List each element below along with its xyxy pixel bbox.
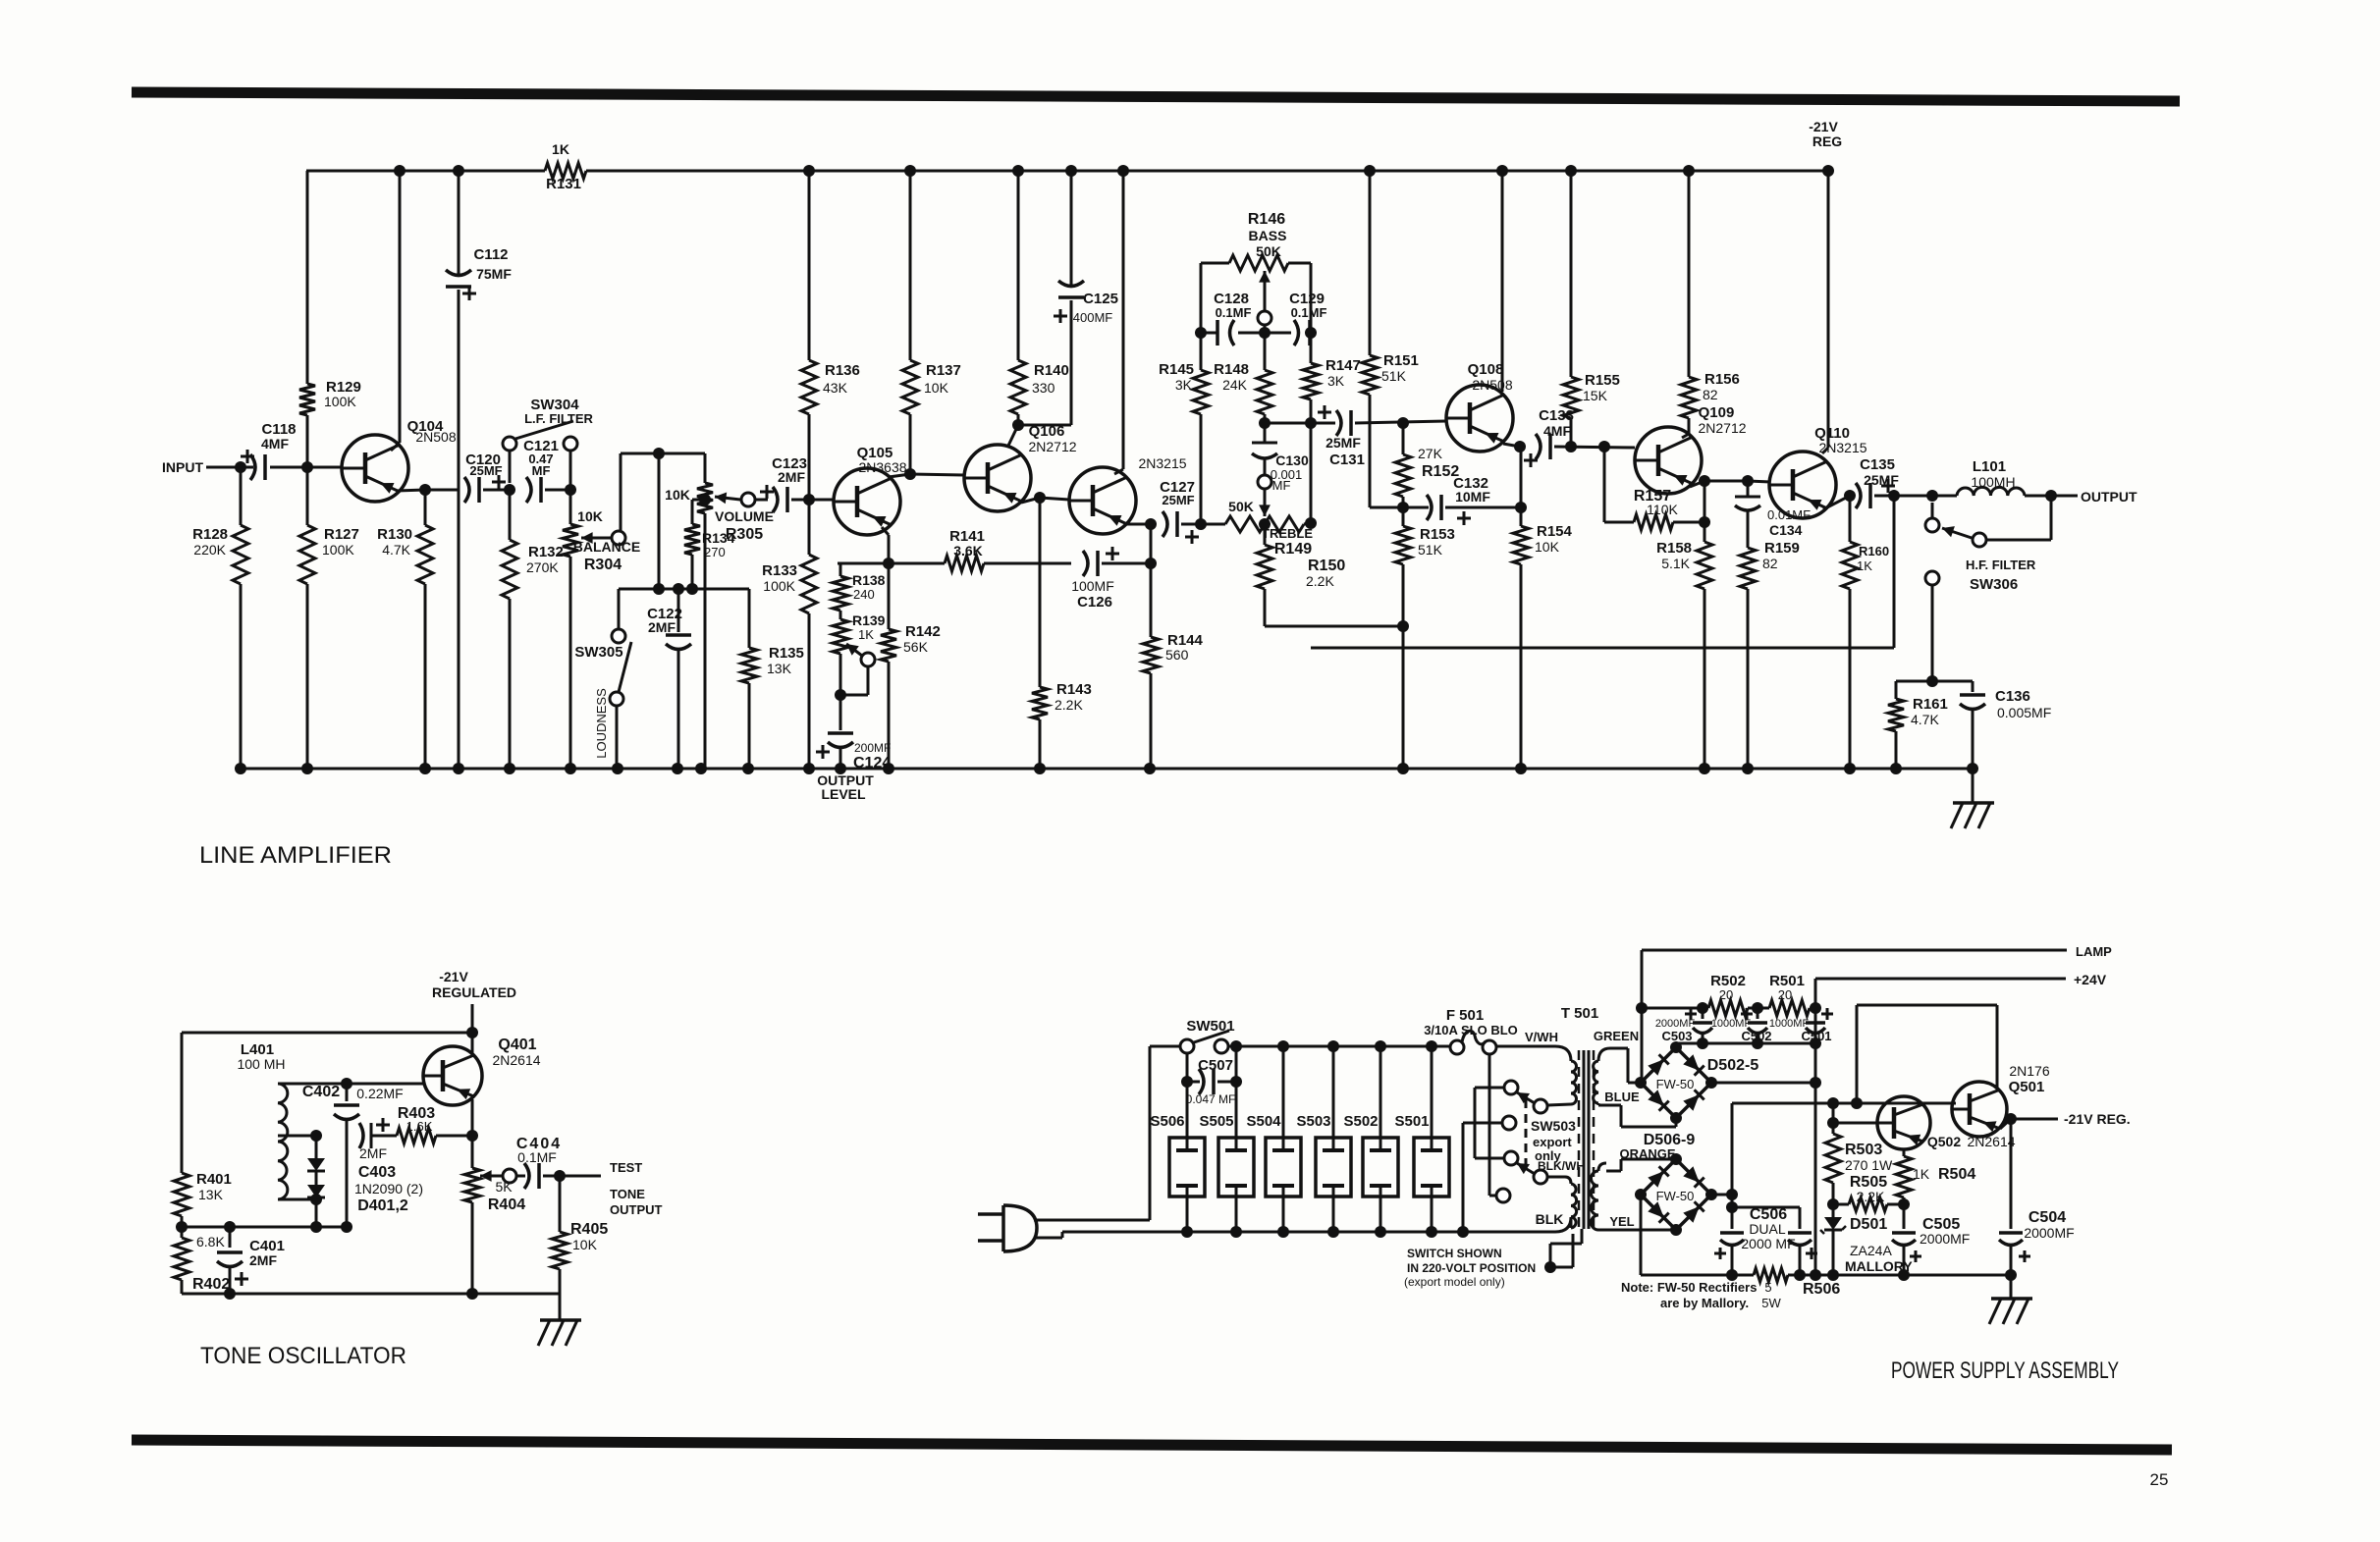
svg-text:15K: 15K xyxy=(1583,388,1608,403)
svg-text:R405: R405 xyxy=(570,1221,608,1238)
svg-text:TREBLE: TREBLE xyxy=(1262,526,1313,541)
svg-text:R155: R155 xyxy=(1585,372,1620,389)
svg-text:2.2K: 2.2K xyxy=(1306,573,1334,589)
svg-text:56K: 56K xyxy=(903,639,929,655)
svg-text:0.1MF: 0.1MF xyxy=(1216,305,1252,320)
svg-text:20: 20 xyxy=(1778,987,1792,1002)
svg-text:R304: R304 xyxy=(584,557,622,573)
svg-text:-21V: -21V xyxy=(439,969,468,984)
svg-text:R132: R132 xyxy=(528,544,564,560)
svg-text:INPUT: INPUT xyxy=(162,459,203,475)
svg-text:2.2K: 2.2K xyxy=(1857,1189,1885,1204)
svg-text:SW503: SW503 xyxy=(1531,1118,1576,1134)
svg-text:C130: C130 xyxy=(1275,452,1309,468)
svg-text:0.047 MF: 0.047 MF xyxy=(1186,1092,1236,1106)
svg-text:R130: R130 xyxy=(377,526,412,543)
svg-text:S504: S504 xyxy=(1246,1113,1281,1130)
svg-text:4.7K: 4.7K xyxy=(1911,712,1939,727)
svg-text:82: 82 xyxy=(1762,556,1778,571)
svg-text:2000MF: 2000MF xyxy=(2024,1225,2074,1241)
svg-text:R151: R151 xyxy=(1383,352,1419,369)
svg-text:C403: C403 xyxy=(358,1164,396,1181)
svg-text:2N2712: 2N2712 xyxy=(1028,439,1076,454)
svg-text:R127: R127 xyxy=(324,526,359,543)
svg-text:C135: C135 xyxy=(1860,456,1895,473)
svg-text:R156: R156 xyxy=(1704,371,1740,388)
svg-text:2N2614: 2N2614 xyxy=(492,1052,540,1068)
svg-text:R506: R506 xyxy=(1803,1281,1840,1298)
svg-text:R159: R159 xyxy=(1764,540,1800,557)
svg-text:TONE OSCILLATOR: TONE OSCILLATOR xyxy=(200,1343,406,1369)
svg-text:2MF: 2MF xyxy=(648,619,676,635)
svg-text:2MF: 2MF xyxy=(359,1145,387,1161)
svg-text:2N176: 2N176 xyxy=(2009,1063,2049,1079)
svg-text:R148: R148 xyxy=(1214,361,1249,378)
svg-text:2N2712: 2N2712 xyxy=(1698,420,1746,436)
svg-text:REG: REG xyxy=(1812,133,1842,149)
svg-text:S503: S503 xyxy=(1296,1113,1330,1130)
svg-text:Q401: Q401 xyxy=(498,1037,536,1053)
svg-text:100K: 100K xyxy=(322,542,354,558)
svg-text:330: 330 xyxy=(1032,380,1055,396)
svg-text:24K: 24K xyxy=(1222,377,1248,393)
svg-text:100K: 100K xyxy=(763,578,795,594)
svg-text:5W: 5W xyxy=(1761,1296,1781,1310)
svg-text:LAMP: LAMP xyxy=(2076,944,2112,959)
svg-text:R138: R138 xyxy=(852,572,886,588)
svg-text:-21V REG.: -21V REG. xyxy=(2064,1111,2131,1127)
svg-text:6.8K: 6.8K xyxy=(196,1234,225,1250)
svg-text:C503: C503 xyxy=(1661,1029,1692,1043)
svg-text:F 501: F 501 xyxy=(1446,1007,1484,1024)
svg-text:4MF: 4MF xyxy=(261,436,289,452)
svg-text:R160: R160 xyxy=(1859,544,1889,558)
svg-text:Note: FW-50 Rectifiers: Note: FW-50 Rectifiers xyxy=(1621,1280,1757,1295)
svg-text:R402: R402 xyxy=(192,1276,230,1293)
svg-text:V/WH: V/WH xyxy=(1525,1030,1558,1044)
svg-text:S501: S501 xyxy=(1394,1113,1429,1130)
svg-text:C507: C507 xyxy=(1198,1057,1233,1074)
svg-text:ZA24A: ZA24A xyxy=(1850,1243,1892,1258)
svg-text:R504: R504 xyxy=(1938,1166,1975,1183)
svg-text:S502: S502 xyxy=(1343,1113,1378,1130)
svg-text:Q501: Q501 xyxy=(2009,1079,2045,1095)
svg-text:R150: R150 xyxy=(1308,558,1345,574)
svg-text:L.F. FILTER: L.F. FILTER xyxy=(524,411,593,426)
svg-text:2N3215: 2N3215 xyxy=(1138,455,1186,471)
svg-text:MF: MF xyxy=(1272,478,1291,493)
svg-text:5K: 5K xyxy=(495,1179,513,1195)
svg-text:50K: 50K xyxy=(1256,243,1281,259)
svg-text:1K: 1K xyxy=(858,627,874,642)
svg-text:200MF: 200MF xyxy=(854,741,891,755)
svg-text:S506: S506 xyxy=(1150,1113,1184,1130)
svg-text:BLK: BLK xyxy=(1536,1211,1564,1227)
svg-text:100K: 100K xyxy=(324,394,356,409)
svg-text:+24V: +24V xyxy=(2074,972,2107,987)
svg-text:R147: R147 xyxy=(1325,357,1361,374)
svg-text:VOLUME: VOLUME xyxy=(715,508,774,524)
svg-text:3K: 3K xyxy=(1327,373,1345,389)
svg-text:5.1K: 5.1K xyxy=(1661,556,1690,571)
svg-text:R143: R143 xyxy=(1056,681,1092,698)
svg-text:100MH: 100MH xyxy=(1971,474,2015,490)
svg-text:OUTPUT: OUTPUT xyxy=(2081,489,2137,505)
svg-text:25MF: 25MF xyxy=(1325,435,1361,451)
svg-text:R158: R158 xyxy=(1656,540,1692,557)
svg-text:2N3638: 2N3638 xyxy=(858,459,906,475)
svg-text:MF: MF xyxy=(532,463,551,478)
svg-text:R131: R131 xyxy=(546,176,581,192)
svg-text:Q108: Q108 xyxy=(1468,361,1504,378)
svg-text:SW501: SW501 xyxy=(1186,1018,1234,1035)
svg-text:270 1W: 270 1W xyxy=(1845,1157,1893,1173)
svg-text:C112: C112 xyxy=(473,246,508,263)
svg-text:3.6K: 3.6K xyxy=(953,543,983,558)
svg-text:110K: 110K xyxy=(1647,502,1678,517)
svg-text:R140: R140 xyxy=(1034,362,1069,379)
svg-text:20: 20 xyxy=(1719,987,1733,1002)
svg-text:C131: C131 xyxy=(1329,452,1365,468)
svg-text:10K: 10K xyxy=(577,508,603,524)
svg-text:5: 5 xyxy=(1764,1280,1771,1295)
svg-text:R133: R133 xyxy=(762,562,797,579)
svg-text:C402: C402 xyxy=(302,1084,340,1100)
svg-text:FW-50: FW-50 xyxy=(1656,1077,1695,1091)
svg-text:D502-5: D502-5 xyxy=(1707,1057,1759,1074)
svg-text:R161: R161 xyxy=(1913,696,1948,713)
svg-text:C136: C136 xyxy=(1995,688,2030,705)
svg-text:R503: R503 xyxy=(1845,1142,1882,1158)
svg-text:Q502: Q502 xyxy=(1927,1134,1961,1149)
svg-text:100MF: 100MF xyxy=(1071,578,1114,594)
svg-text:560: 560 xyxy=(1165,647,1189,663)
svg-text:TONE: TONE xyxy=(610,1187,645,1201)
svg-text:1K: 1K xyxy=(1857,558,1872,573)
svg-text:50K: 50K xyxy=(1228,499,1254,514)
svg-text:C504: C504 xyxy=(2028,1209,2066,1226)
svg-text:82: 82 xyxy=(1703,387,1718,402)
svg-text:BASS: BASS xyxy=(1249,228,1287,243)
svg-text:R135: R135 xyxy=(769,645,804,662)
svg-text:0.005MF: 0.005MF xyxy=(1997,705,2051,720)
svg-text:2MF: 2MF xyxy=(249,1252,277,1268)
svg-text:LEVEL: LEVEL xyxy=(821,786,866,802)
svg-text:IN 220-VOLT POSITION: IN 220-VOLT POSITION xyxy=(1407,1261,1536,1275)
svg-text:TEST: TEST xyxy=(610,1160,642,1175)
svg-text:1K: 1K xyxy=(1913,1166,1930,1182)
svg-text:1K: 1K xyxy=(552,141,569,157)
svg-text:C124: C124 xyxy=(853,755,891,771)
svg-text:240: 240 xyxy=(853,587,875,602)
svg-text:SW306: SW306 xyxy=(1970,576,2018,593)
svg-text:SW305: SW305 xyxy=(574,644,622,661)
svg-text:51K: 51K xyxy=(1381,368,1407,384)
svg-text:10K: 10K xyxy=(924,380,949,396)
svg-text:13K: 13K xyxy=(767,661,792,676)
svg-text:2.2K: 2.2K xyxy=(1055,697,1083,713)
svg-text:YEL: YEL xyxy=(1609,1214,1634,1229)
svg-text:R404: R404 xyxy=(488,1196,525,1213)
svg-text:0.1MF: 0.1MF xyxy=(1291,305,1327,320)
svg-text:3K: 3K xyxy=(1175,377,1193,393)
svg-text:2MF: 2MF xyxy=(778,469,805,485)
svg-text:10K: 10K xyxy=(572,1237,598,1252)
svg-text:export: export xyxy=(1533,1135,1572,1149)
svg-text:10MF: 10MF xyxy=(1455,489,1490,505)
svg-text:400MF: 400MF xyxy=(1073,310,1113,325)
svg-text:2000 MF: 2000 MF xyxy=(1741,1236,1795,1251)
svg-text:DUAL: DUAL xyxy=(1749,1221,1786,1237)
svg-text:R142: R142 xyxy=(905,623,941,640)
svg-text:3/10A SLO BLO: 3/10A SLO BLO xyxy=(1424,1023,1518,1037)
svg-text:S505: S505 xyxy=(1199,1113,1233,1130)
svg-text:R128: R128 xyxy=(192,526,228,543)
svg-text:10K: 10K xyxy=(665,487,690,503)
svg-text:H.F. FILTER: H.F. FILTER xyxy=(1966,558,2036,572)
svg-text:T 501: T 501 xyxy=(1561,1005,1598,1022)
svg-text:R146: R146 xyxy=(1248,211,1285,228)
svg-text:25: 25 xyxy=(2150,1470,2169,1489)
svg-text:220K: 220K xyxy=(193,542,226,558)
svg-text:C126: C126 xyxy=(1077,594,1112,611)
svg-text:C134: C134 xyxy=(1769,522,1803,538)
svg-text:Q109: Q109 xyxy=(1699,404,1735,421)
svg-text:2000MF: 2000MF xyxy=(1920,1231,1970,1247)
svg-text:2N508: 2N508 xyxy=(1472,377,1512,393)
svg-text:C125: C125 xyxy=(1083,291,1118,307)
svg-text:51K: 51K xyxy=(1418,542,1443,558)
svg-text:LINE AMPLIFIER: LINE AMPLIFIER xyxy=(199,842,392,869)
svg-text:1.6K: 1.6K xyxy=(406,1119,433,1134)
svg-text:R149: R149 xyxy=(1274,541,1312,558)
svg-text:25MF: 25MF xyxy=(1864,472,1899,488)
svg-text:2N3215: 2N3215 xyxy=(1818,440,1866,455)
svg-text:GREEN: GREEN xyxy=(1594,1029,1639,1043)
svg-text:100 MH: 100 MH xyxy=(237,1056,285,1072)
svg-text:are by Mallory.: are by Mallory. xyxy=(1660,1296,1749,1310)
svg-text:1N2090 (2): 1N2090 (2) xyxy=(354,1181,423,1196)
svg-text:REGULATED: REGULATED xyxy=(432,984,516,1000)
svg-text:43K: 43K xyxy=(823,380,848,396)
svg-text:75MF: 75MF xyxy=(476,266,512,282)
svg-text:BLUE: BLUE xyxy=(1604,1090,1640,1104)
svg-text:R153: R153 xyxy=(1420,526,1455,543)
svg-text:BALANCE: BALANCE xyxy=(573,539,640,555)
svg-text:D501: D501 xyxy=(1850,1216,1887,1233)
svg-text:2N508: 2N508 xyxy=(415,429,456,445)
svg-text:0.22MF: 0.22MF xyxy=(356,1086,403,1101)
svg-text:D401,2: D401,2 xyxy=(357,1197,408,1214)
svg-text:R137: R137 xyxy=(926,362,961,379)
svg-text:13K: 13K xyxy=(198,1187,224,1202)
svg-text:R401: R401 xyxy=(196,1171,232,1188)
svg-text:25MF: 25MF xyxy=(469,463,502,478)
svg-text:LOUDNESS: LOUDNESS xyxy=(594,688,609,759)
svg-text:SWITCH SHOWN: SWITCH SHOWN xyxy=(1407,1247,1502,1260)
svg-text:(export model only): (export model only) xyxy=(1404,1275,1505,1289)
svg-text:0.1MF: 0.1MF xyxy=(517,1149,557,1165)
svg-text:-21V: -21V xyxy=(1809,119,1838,134)
svg-text:R134: R134 xyxy=(702,530,735,546)
svg-text:10K: 10K xyxy=(1535,539,1560,555)
svg-text:2N2614: 2N2614 xyxy=(1967,1134,2015,1149)
svg-text:C133: C133 xyxy=(1539,407,1574,424)
svg-text:R139: R139 xyxy=(852,612,886,628)
svg-text:4.7K: 4.7K xyxy=(382,542,410,558)
svg-text:POWER SUPPLY ASSEMBLY: POWER SUPPLY ASSEMBLY xyxy=(1891,1357,2119,1384)
svg-text:L101: L101 xyxy=(1973,458,2006,475)
svg-text:4MF: 4MF xyxy=(1543,423,1571,439)
svg-text:FW-50: FW-50 xyxy=(1656,1189,1695,1203)
svg-text:R145: R145 xyxy=(1159,361,1194,378)
svg-text:25MF: 25MF xyxy=(1162,493,1194,507)
svg-text:270: 270 xyxy=(704,545,726,559)
svg-text:270K: 270K xyxy=(526,559,559,575)
svg-text:27K: 27K xyxy=(1418,446,1443,461)
svg-text:OUTPUT: OUTPUT xyxy=(610,1202,663,1217)
svg-text:R136: R136 xyxy=(825,362,860,379)
svg-text:R154: R154 xyxy=(1537,523,1573,540)
